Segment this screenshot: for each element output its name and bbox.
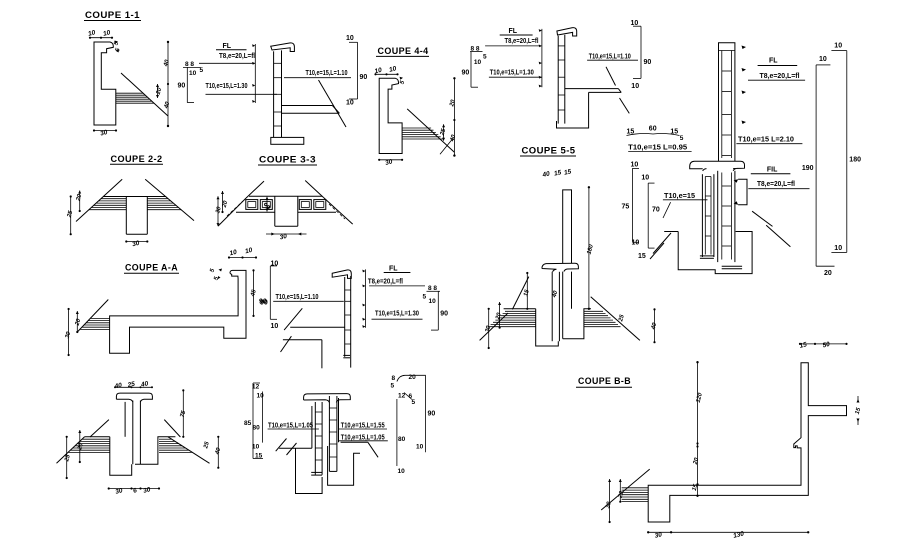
svg-text:T10,e=15 L=0.95: T10,e=15 L=0.95 <box>628 145 687 152</box>
rebar distribution line with hooks <box>541 29 543 87</box>
left boot <box>536 309 559 346</box>
wall cap <box>557 28 577 36</box>
svg-text:90: 90 <box>360 74 368 81</box>
svg-text:FL: FL <box>223 43 232 50</box>
svg-text:T8,e=20,L=fl: T8,e=20,L=fl <box>368 279 403 286</box>
svg-text:COUPE B-B: COUPE B-B <box>578 376 631 386</box>
right stem rebar ladder <box>328 396 330 471</box>
svg-text:60: 60 <box>649 126 657 133</box>
ground diagonal <box>319 80 347 127</box>
right anchor block with arrows <box>738 179 747 205</box>
hatch fill lines <box>116 92 143 94</box>
svg-text:10: 10 <box>631 162 639 169</box>
hatch left <box>505 310 536 312</box>
left dim lines <box>68 309 70 355</box>
svg-text:T10,e=15: T10,e=15 <box>664 193 695 200</box>
svg-text:80: 80 <box>253 425 261 432</box>
right vertical dim line <box>167 42 169 126</box>
svg-text:10: 10 <box>819 56 827 63</box>
svg-text:90: 90 <box>440 311 448 318</box>
svg-text:10: 10 <box>834 245 842 252</box>
svg-text:20: 20 <box>824 270 832 277</box>
dim 30 bottom <box>379 159 402 161</box>
wall rebar double line <box>273 51 275 137</box>
channel left wall face <box>124 402 126 437</box>
dim 30 bottom <box>94 130 116 132</box>
hatch <box>622 487 649 489</box>
svg-text:T10,e=15,L=1.30: T10,e=15,L=1.30 <box>375 311 419 318</box>
outer diagonals <box>57 437 85 464</box>
left channel wall face <box>311 406 313 448</box>
left boot <box>296 448 323 493</box>
svg-text:10: 10 <box>631 20 639 27</box>
svg-text:10: 10 <box>271 261 279 268</box>
svg-text:T10,e=15,L=1.10: T10,e=15,L=1.10 <box>276 294 319 301</box>
slab right <box>282 105 332 107</box>
svg-text:COUPE 4-4: COUPE 4-4 <box>378 46 429 56</box>
tall wall rebar cage <box>719 43 735 161</box>
hatch right <box>584 310 603 312</box>
center rebar mark <box>266 197 268 212</box>
svg-text:T10,e=15,L=1.05: T10,e=15,L=1.05 <box>341 434 385 441</box>
svg-text:190: 190 <box>802 165 814 172</box>
bottom dim 30 6 30 <box>109 488 159 490</box>
right dim lines <box>217 437 219 468</box>
slab bottom right <box>298 211 336 213</box>
left dim lines <box>609 479 611 522</box>
ground left <box>85 436 110 438</box>
svg-text:COUPE A-A: COUPE A-A <box>125 263 178 273</box>
ground diagonal (broken) <box>606 67 616 86</box>
right boot <box>328 446 360 485</box>
svg-text:70: 70 <box>652 207 660 214</box>
svg-text:T8,e=20,L=fl: T8,e=20,L=fl <box>760 73 800 80</box>
svg-text:T8,e=20,L=fl: T8,e=20,L=fl <box>219 53 255 60</box>
vertical dim 120/20/15 <box>697 362 699 496</box>
wall rebar bars <box>557 36 559 124</box>
svg-text:10: 10 <box>189 70 197 77</box>
right footing <box>135 437 175 464</box>
wall + slab outline with curb <box>110 270 246 353</box>
coping cap <box>690 161 745 171</box>
svg-text:10: 10 <box>834 43 842 50</box>
svg-text:T10,e=15,L=1.05: T10,e=15,L=1.05 <box>268 423 313 430</box>
coping cap <box>304 394 351 403</box>
svg-text:8: 8 <box>392 375 396 382</box>
wall footing <box>557 92 589 128</box>
slab lines <box>290 326 345 328</box>
svg-text:90: 90 <box>462 70 470 77</box>
svg-text:5: 5 <box>391 383 395 390</box>
wall with ledge outline <box>648 363 846 522</box>
slab right <box>565 88 619 90</box>
right stem below cap <box>562 272 564 339</box>
small dim 15 <box>526 273 528 309</box>
rib <box>274 196 276 226</box>
svg-text:10: 10 <box>416 444 424 451</box>
break diagonals <box>90 420 109 437</box>
svg-text:FL: FL <box>509 28 518 35</box>
svg-text:80: 80 <box>398 436 406 443</box>
wall outline with curb <box>94 42 116 125</box>
right channel wall face <box>338 398 340 442</box>
break diagonals <box>284 308 302 330</box>
svg-text:75: 75 <box>622 204 630 211</box>
coping cap <box>116 393 152 402</box>
rebar distribution line with hooks <box>254 44 256 103</box>
outer diagonals <box>218 198 246 226</box>
svg-text:15: 15 <box>638 253 646 260</box>
svg-text:10: 10 <box>632 240 640 247</box>
svg-text:T8,e=20,L=fl: T8,e=20,L=fl <box>505 38 539 45</box>
svg-text:12: 12 <box>398 393 406 400</box>
svg-text:5: 5 <box>680 135 684 142</box>
wall cap <box>271 43 295 52</box>
ground left <box>279 447 312 449</box>
left break diagonal <box>76 179 122 221</box>
outer diagonals <box>480 313 508 340</box>
dashed diagonals <box>227 201 243 216</box>
slab bottom left <box>236 211 275 213</box>
wall rebar bars <box>344 277 346 357</box>
svg-text:T8,e=20,L=fl: T8,e=20,L=fl <box>757 181 795 188</box>
tall stem <box>563 190 572 263</box>
svg-text:FL: FL <box>389 266 398 273</box>
left dim lines <box>66 437 68 478</box>
svg-text:180: 180 <box>849 157 861 164</box>
hatch <box>402 127 431 129</box>
dim 30 under rib <box>266 233 307 235</box>
svg-text:10: 10 <box>271 323 279 330</box>
curb tiny dims <box>219 269 223 272</box>
left secondary stem rebar ladder <box>701 174 703 257</box>
svg-text:10: 10 <box>474 59 482 66</box>
rib <box>125 197 127 235</box>
svg-text:90: 90 <box>259 299 267 306</box>
svg-text:T10,e=15,L=1.30: T10,e=15,L=1.30 <box>206 83 248 90</box>
svg-text:10: 10 <box>631 83 639 90</box>
left break diagonals <box>653 233 671 254</box>
wall outline with curb <box>379 78 402 153</box>
svg-text:5: 5 <box>412 399 416 406</box>
svg-text:10: 10 <box>346 35 354 42</box>
hatch left <box>82 438 110 440</box>
ground diagonal <box>121 73 168 116</box>
left dim lines <box>488 309 490 348</box>
ground left <box>504 308 536 310</box>
break diagonal left <box>512 277 528 310</box>
hatch left <box>101 198 126 200</box>
right boot <box>563 309 591 339</box>
right break diagonal <box>145 179 194 220</box>
svg-text:COUPE 5-5: COUPE 5-5 <box>522 146 576 156</box>
wall cap <box>332 270 351 278</box>
hooks right of wall <box>742 46 747 50</box>
hollow block 2 <box>260 200 272 210</box>
svg-text:10: 10 <box>398 468 406 475</box>
svg-text:5: 5 <box>483 54 487 61</box>
svg-text:FL: FL <box>769 58 778 65</box>
svg-text:90: 90 <box>644 59 652 66</box>
rebar distribution line with hooks <box>365 269 367 327</box>
svg-text:T10,e=15 L=2.10: T10,e=15 L=2.10 <box>738 136 794 143</box>
coping cap <box>542 263 579 272</box>
svg-text:10: 10 <box>257 393 265 400</box>
right break diagonals <box>752 211 772 226</box>
left dim lines <box>217 196 219 226</box>
right vertical dim 75 <box>182 390 184 436</box>
svg-text:85: 85 <box>244 420 252 427</box>
break diagonals <box>246 181 264 198</box>
hatch right <box>147 198 168 200</box>
stem bars <box>132 401 134 465</box>
ground right + diagonal <box>341 441 368 443</box>
svg-text:FIL: FIL <box>767 166 778 173</box>
svg-text:90: 90 <box>428 411 436 418</box>
svg-text:8 8: 8 8 <box>185 61 194 68</box>
dim 30 <box>126 241 147 243</box>
left boot <box>110 437 132 475</box>
svg-text:T10,e=15,L=1.55: T10,e=15,L=1.55 <box>341 423 385 430</box>
left stem below cap <box>551 272 553 341</box>
hatch right <box>159 438 172 440</box>
wall footing <box>271 137 304 144</box>
svg-text:T10,e=15,L=1.30: T10,e=15,L=1.30 <box>490 70 534 77</box>
right vertical dim <box>453 78 455 155</box>
left dim lines <box>70 197 72 235</box>
svg-text:COUPE 2-2: COUPE 2-2 <box>111 154 163 164</box>
svg-text:T10,e=15,L=1.10: T10,e=15,L=1.10 <box>306 70 348 77</box>
svg-text:COUPE 3-3: COUPE 3-3 <box>259 155 316 165</box>
main wall lower rebar cage <box>717 171 719 262</box>
right vertical dim <box>253 270 255 316</box>
left break diagonal <box>276 439 287 452</box>
ground diagonal <box>77 300 108 333</box>
svg-text:10: 10 <box>346 100 354 107</box>
ground diagonal <box>601 469 650 510</box>
bar bottom foot <box>343 354 350 356</box>
left stem rebar ladder <box>314 402 316 475</box>
hollow block 4 <box>314 200 326 210</box>
ground diagonal <box>407 109 454 152</box>
bottom dim 30 / 130 <box>648 531 808 533</box>
slab top line <box>103 196 166 198</box>
svg-text:5: 5 <box>423 294 427 301</box>
long vertical dim 180 <box>588 187 590 308</box>
svg-text:10: 10 <box>641 175 649 182</box>
curb tiny dim <box>400 77 404 80</box>
left boot <box>678 232 752 274</box>
svg-text:COUPE 1-1: COUPE 1-1 <box>85 10 140 20</box>
svg-text:90: 90 <box>178 83 186 90</box>
svg-text:T10,e=15,L=1.10: T10,e=15,L=1.10 <box>589 54 631 61</box>
hatch <box>90 317 109 319</box>
svg-text:10: 10 <box>429 298 437 305</box>
ledge dim 15 <box>857 399 860 403</box>
ground left <box>664 231 678 233</box>
slab top <box>249 195 322 197</box>
hollow block 3 <box>299 200 311 210</box>
svg-text:5: 5 <box>200 67 204 74</box>
hollow block 1 <box>246 200 258 210</box>
